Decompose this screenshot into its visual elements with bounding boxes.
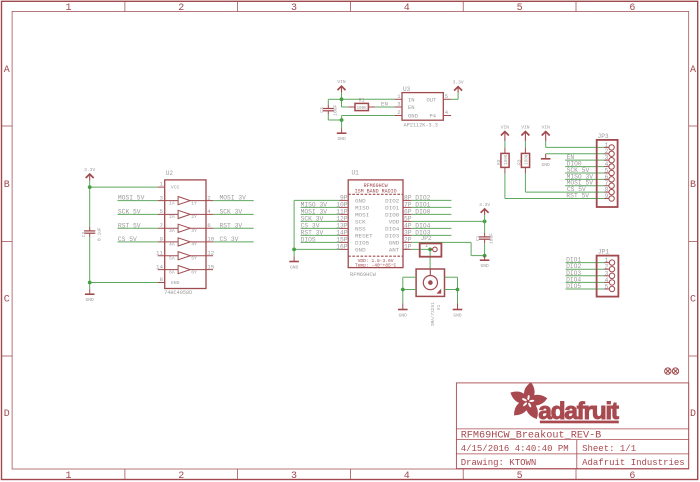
title block — [456, 383, 688, 469]
net label DIO0 (header) — [567, 161, 582, 168]
supply VIN (regulator input) — [337, 79, 346, 99]
wire VIN net — [328, 99, 394, 107]
net label MISO_3V (radio) — [301, 201, 328, 208]
wire MOSI_3V net — [213, 200, 254, 202]
capacitor C2 0.1uF — [81, 227, 102, 241]
svg-text:U1: U1 — [352, 170, 360, 177]
svg-text:4Y: 4Y — [191, 242, 197, 248]
svg-text:RESET: RESET — [355, 233, 373, 240]
svg-text:Temp: -40°+85°C: Temp: -40°+85°C — [355, 263, 397, 269]
node shield junction right — [456, 288, 460, 292]
svg-text:CS_5V: CS_5V — [118, 236, 137, 243]
svg-text:RFM69HCW_Breakout_REV-B: RFM69HCW_Breakout_REV-B — [461, 430, 602, 442]
svg-text:CS_3V: CS_3V — [301, 222, 320, 229]
svg-text:14P: 14P — [336, 230, 348, 237]
svg-text:3A: 3A — [169, 228, 175, 234]
svg-text:DIO1: DIO1 — [385, 205, 400, 212]
svg-text:D: D — [4, 409, 10, 420]
svg-text:GND: GND — [355, 198, 366, 205]
svg-text:74HC4050D: 74HC4050D — [164, 290, 192, 296]
wire RST_3V net — [213, 227, 254, 229]
wire DIO4 net (DIO header) — [566, 281, 605, 283]
svg-text:DIO0: DIO0 — [415, 208, 430, 215]
fiducial marks — [665, 368, 679, 374]
net label DIO4 (DIO header) — [566, 276, 581, 283]
svg-text:MOSI_5V: MOSI_5V — [567, 180, 594, 187]
svg-text:EN: EN — [381, 101, 388, 108]
svg-text:5: 5 — [517, 471, 523, 482]
svg-text:RFM69HCW: RFM69HCW — [350, 272, 377, 278]
svg-text:JP1: JP1 — [598, 249, 609, 256]
net label MISO_3V (header) — [567, 173, 594, 180]
wire CS_3V net — [213, 241, 254, 243]
net label DIO3 (radio right) — [415, 229, 430, 236]
svg-text:2Y: 2Y — [191, 214, 197, 220]
wire RST_5V net — [118, 227, 158, 229]
node shield junction left — [401, 288, 405, 292]
svg-text:6: 6 — [629, 471, 635, 482]
svg-text:A: A — [690, 65, 696, 76]
net label CS_5V — [118, 236, 137, 243]
wire DIO2 net (radio right) — [411, 199, 451, 201]
svg-text:2: 2 — [207, 194, 211, 201]
svg-text:4: 4 — [404, 3, 410, 14]
svg-text:2: 2 — [397, 109, 400, 116]
svg-text:IN: IN — [408, 96, 415, 103]
wire SMA shield right — [445, 277, 458, 303]
svg-text:9: 9 — [160, 236, 164, 243]
svg-text:DIO3: DIO3 — [385, 233, 400, 240]
wire DIO1 net (radio right) — [411, 206, 451, 208]
svg-text:16P: 16P — [336, 244, 348, 251]
svg-text:EN: EN — [408, 104, 415, 111]
svg-text:10uF: 10uF — [488, 233, 494, 244]
svg-text:3: 3 — [397, 101, 400, 108]
node GND junction (C1) — [483, 254, 487, 258]
svg-text:3.3V: 3.3V — [84, 167, 95, 173]
svg-text:C: C — [690, 295, 696, 306]
svg-text:Adafruit Industries: Adafruit Industries — [582, 458, 685, 468]
svg-text:DIO5: DIO5 — [566, 283, 581, 290]
wire 3.3V net (regulator output) — [451, 93, 458, 100]
svg-text:GND: GND — [355, 247, 366, 254]
net label CS_3V — [220, 236, 239, 243]
svg-text:15P: 15P — [336, 237, 348, 244]
svg-text:3: 3 — [291, 471, 297, 482]
svg-text:RST_5V: RST_5V — [566, 193, 589, 200]
svg-text:GND: GND — [86, 297, 95, 303]
ground (SMA left) — [398, 304, 408, 319]
net label MOSI_5V (header) — [567, 180, 594, 187]
svg-text:6Y: 6Y — [191, 269, 197, 275]
net label EN (header) — [567, 154, 575, 161]
SMA connector X1 — [416, 269, 444, 326]
net label CS_3V (radio) — [301, 222, 320, 229]
wire DIO5 net (DIO header) — [566, 288, 605, 290]
net label MOSI_3V — [220, 195, 247, 202]
wire SMA shield left — [403, 277, 416, 303]
svg-text:VDD: VDD — [389, 219, 400, 226]
wire DIO3 net (radio right) — [411, 234, 451, 236]
net label RST_5V — [118, 222, 141, 229]
svg-text:DIO2: DIO2 — [415, 194, 430, 201]
svg-text:8: 8 — [160, 276, 164, 283]
net label DIO5 (DIO header) — [566, 283, 581, 290]
header JP3 — [597, 133, 618, 207]
svg-text:2P: 2P — [404, 237, 412, 244]
wire MOSI_5V net (header) — [565, 185, 604, 187]
header JP1 — [597, 249, 619, 297]
svg-text:4P: 4P — [404, 223, 412, 230]
net label CS_5V (header) — [567, 186, 586, 193]
svg-text:2A: 2A — [169, 214, 175, 220]
svg-text:3: 3 — [160, 194, 164, 201]
supply VIN (pullup R3) — [521, 125, 530, 148]
svg-text:11P: 11P — [336, 209, 348, 216]
svg-text:5P: 5P — [404, 216, 412, 223]
svg-text:OUT: OUT — [427, 96, 438, 103]
wire MISO_3V net (radio) — [301, 206, 340, 208]
net label MOSI_5V — [118, 195, 145, 202]
svg-text:12P: 12P — [336, 216, 348, 223]
svg-text:3: 3 — [291, 3, 297, 14]
capacitor C1 10uF — [475, 221, 494, 255]
wire DIO0 net (header) — [565, 166, 604, 168]
svg-text:DIO1: DIO1 — [415, 201, 430, 208]
svg-text:3.3V: 3.3V — [479, 202, 490, 208]
svg-text:15: 15 — [207, 263, 214, 270]
ground (regulator) — [337, 128, 347, 142]
net label RST_5V (header) — [566, 193, 589, 200]
svg-text:3.3V: 3.3V — [453, 80, 464, 86]
node ANT junction — [428, 248, 432, 252]
svg-text:Drawing: KTOWN: Drawing: KTOWN — [461, 458, 537, 468]
wire RST_3V net (radio) — [301, 234, 340, 236]
svg-text:1Y: 1Y — [191, 200, 197, 206]
svg-text:MOSI_3V: MOSI_3V — [220, 195, 247, 202]
svg-text:VIN: VIN — [337, 79, 346, 85]
svg-text:SCK_5V: SCK_5V — [118, 208, 141, 215]
svg-text:6: 6 — [629, 3, 635, 14]
net label RST_3V (radio) — [301, 229, 324, 236]
svg-text:2: 2 — [178, 3, 184, 14]
svg-text:14: 14 — [156, 263, 163, 270]
net label SCK_3V — [220, 208, 243, 215]
svg-text:CS_3V: CS_3V — [220, 236, 239, 243]
wire GND bus (radio left) — [294, 200, 339, 256]
wire GND net (radio right) — [411, 242, 484, 255]
svg-text:MOSI: MOSI — [355, 212, 369, 219]
header JP2 (antenna pad) — [420, 235, 442, 256]
svg-text:C3: C3 — [319, 107, 325, 113]
buffer IC U2 74HC4050D — [156, 170, 215, 296]
svg-text:7P: 7P — [404, 202, 412, 209]
svg-text:NSS: NSS — [355, 226, 366, 233]
wire CS_5V net — [118, 241, 158, 243]
svg-text:9: 9 — [605, 193, 609, 200]
svg-text:SCK_3V: SCK_3V — [220, 208, 243, 215]
svg-text:6: 6 — [207, 222, 211, 229]
svg-text:11: 11 — [156, 250, 163, 257]
svg-text:GND: GND — [290, 265, 299, 271]
svg-text:5: 5 — [605, 284, 609, 291]
wire CS_5V net — [525, 174, 604, 193]
svg-text:MISO: MISO — [355, 205, 370, 212]
svg-text:4: 4 — [404, 471, 410, 482]
svg-text:R1: R1 — [359, 98, 365, 104]
svg-text:VCC: VCC — [171, 184, 180, 190]
wire SCK_5V net (header) — [565, 172, 604, 174]
svg-text:MOSI_3V: MOSI_3V — [301, 208, 328, 215]
svg-text:5A: 5A — [169, 256, 175, 262]
svg-text:R2: R2 — [496, 159, 502, 165]
net label DIO2 (DIO header) — [566, 263, 581, 270]
voltage regulator U3 AP2112K-3.3 — [395, 86, 452, 129]
svg-text:8P: 8P — [404, 195, 412, 202]
wire DIO3 net (DIO header) — [566, 275, 605, 277]
net label EN — [381, 101, 388, 108]
svg-text:DIO4: DIO4 — [415, 222, 430, 229]
svg-text:4/15/2016 4:40:40 PM: 4/15/2016 4:40:40 PM — [461, 444, 569, 454]
wire MOSI_5V net — [118, 200, 158, 202]
svg-text:C2: C2 — [81, 231, 87, 237]
ground (SMA right) — [453, 304, 463, 319]
svg-text:RST_3V: RST_3V — [220, 222, 243, 229]
svg-text:A: A — [4, 65, 10, 76]
svg-text:5Y: 5Y — [191, 256, 197, 262]
svg-text:MISO_3V: MISO_3V — [301, 201, 328, 208]
net label MOSI_3V (radio) — [301, 208, 328, 215]
wire DIO4 net (radio right) — [411, 227, 451, 229]
node GND junction (radio left) — [292, 248, 296, 252]
wire GND rail (buffer) — [90, 237, 158, 289]
supply VIN (pullup R2) — [501, 125, 510, 148]
ground (C1) — [480, 256, 490, 270]
svg-text:X1: X1 — [436, 304, 442, 310]
net label SCK_5V — [118, 208, 141, 215]
svg-text:ISM BAND RADIO: ISM BAND RADIO — [355, 188, 397, 194]
svg-text:GND: GND — [171, 280, 180, 286]
supply 3.3V (buffer) — [84, 167, 95, 187]
svg-text:D: D — [690, 409, 696, 420]
wire RST_5V net — [505, 174, 604, 199]
supply 3.3V (radio VDD) — [479, 202, 490, 222]
net label RST_3V — [220, 222, 243, 229]
wire DIO1 net (DIO header) — [566, 262, 605, 264]
ground (radio left) — [289, 257, 299, 271]
wire 3.3V rail (buffer) — [90, 187, 158, 227]
wire GND net (header) — [546, 153, 604, 155]
resistor R1 100K — [348, 98, 375, 111]
supply VIN (header pin 1) — [542, 125, 551, 142]
svg-text:VIN: VIN — [501, 125, 510, 131]
svg-text:100K: 100K — [526, 154, 530, 165]
radio module U1 RFM69HCW — [336, 170, 412, 279]
svg-text:VIN: VIN — [521, 125, 530, 131]
svg-text:GND: GND — [399, 313, 408, 319]
wire EN net (header) — [565, 159, 604, 161]
svg-text:7: 7 — [160, 222, 164, 229]
svg-text:U3: U3 — [403, 86, 411, 93]
wire MOSI_3V net (radio) — [301, 213, 340, 215]
svg-text:GND: GND — [542, 162, 551, 168]
wire SCK_5V net — [118, 213, 158, 215]
wire GND net (regulator) — [328, 115, 394, 129]
svg-text:CS_5V: CS_5V — [567, 186, 586, 193]
svg-text:DIO5: DIO5 — [355, 240, 370, 247]
svg-text:Sheet: 1/1: Sheet: 1/1 — [582, 444, 636, 454]
svg-text:12: 12 — [207, 250, 214, 257]
wire MISO_3V net (header) — [565, 178, 604, 180]
svg-text:10uF: 10uF — [333, 105, 339, 116]
net label DIO1 (radio right) — [415, 201, 430, 208]
svg-text:C: C — [4, 295, 10, 306]
svg-text:SCK_3V: SCK_3V — [301, 215, 324, 222]
resistor R2 100K — [496, 148, 509, 174]
net label DIO2 (radio right) — [415, 194, 430, 201]
svg-text:DIO5: DIO5 — [301, 236, 316, 243]
svg-text:RST_5V: RST_5V — [118, 222, 141, 229]
svg-text:1: 1 — [65, 3, 71, 14]
wire VDD 3.3V net (radio) — [411, 220, 484, 222]
svg-text:10P: 10P — [336, 202, 348, 209]
svg-text:100K: 100K — [505, 154, 509, 165]
wire CS_3V net (radio) — [301, 227, 340, 229]
wire SCK_3V net (radio) — [301, 220, 340, 222]
wire EN net — [375, 106, 394, 108]
node 3.3V junction (buffer) — [88, 185, 92, 189]
svg-text:13P: 13P — [336, 223, 348, 230]
svg-text:R3: R3 — [517, 159, 523, 165]
logo adafruit — [510, 382, 618, 425]
svg-text:5: 5 — [160, 208, 164, 215]
svg-text:ANT: ANT — [389, 247, 400, 254]
svg-text:1P: 1P — [404, 244, 412, 251]
svg-text:1A: 1A — [169, 200, 175, 206]
svg-text:JP3: JP3 — [598, 133, 609, 140]
svg-text:4A: 4A — [169, 242, 175, 248]
svg-text:DIO4: DIO4 — [385, 226, 400, 233]
node VDD junction — [483, 220, 487, 224]
svg-text:B: B — [4, 180, 10, 191]
svg-text:2: 2 — [178, 471, 184, 482]
svg-text:DIO2: DIO2 — [385, 198, 400, 205]
svg-text:U2: U2 — [166, 170, 174, 177]
svg-text:6P: 6P — [404, 209, 412, 216]
svg-text:GND: GND — [480, 263, 489, 269]
svg-text:P4: P4 — [430, 112, 437, 119]
wire SCK_3V net — [213, 213, 254, 215]
svg-text:B: B — [690, 180, 696, 191]
wire DIO2 net (DIO header) — [566, 268, 605, 270]
svg-text:1: 1 — [65, 471, 71, 482]
wire VIN net (header) — [546, 141, 604, 147]
resistor R3 100K — [517, 148, 530, 174]
net label DIO0 (radio right) — [415, 208, 430, 215]
net label DIO1 (DIO header) — [566, 257, 581, 264]
svg-text:SMA/73251: SMA/73251 — [431, 302, 436, 326]
net label DIO3 (DIO header) — [566, 270, 581, 277]
supply 3.3V (regulator output) — [453, 80, 464, 93]
svg-text:JP2: JP2 — [421, 235, 432, 242]
svg-text:4: 4 — [207, 208, 211, 215]
svg-text:GND: GND — [453, 313, 462, 319]
node GND junction (buffer) — [88, 281, 92, 285]
svg-text:SCK: SCK — [355, 219, 366, 226]
svg-text:3P: 3P — [404, 230, 412, 237]
svg-text:9P: 9P — [340, 195, 348, 202]
svg-text:GND: GND — [337, 136, 346, 142]
svg-text:RST_3V: RST_3V — [301, 229, 324, 236]
svg-text:GND: GND — [389, 240, 400, 247]
svg-text:C1: C1 — [475, 235, 481, 241]
svg-text:5: 5 — [517, 3, 523, 14]
ground (header) — [541, 154, 551, 168]
net label SCK_5V (header) — [567, 167, 590, 174]
svg-text:AP2112K-3.3: AP2112K-3.3 — [404, 123, 438, 129]
wire DIO0 net (radio right) — [411, 213, 451, 215]
wire DIO5 net (radio) — [301, 241, 340, 243]
ground (buffer) — [85, 289, 95, 303]
svg-text:5: 5 — [445, 93, 448, 100]
svg-text:DIO0: DIO0 — [385, 212, 400, 219]
node GND junction (regulator) — [340, 118, 344, 122]
node VIN junction — [340, 97, 344, 101]
svg-text:100K: 100K — [357, 107, 368, 111]
net label DIO5 (radio) — [301, 236, 316, 243]
wire ANT net — [411, 249, 430, 269]
svg-text:MOSI_5V: MOSI_5V — [118, 195, 145, 202]
capacitor C3 10uF — [319, 105, 339, 116]
svg-text:VIN: VIN — [542, 125, 551, 131]
svg-text:GND: GND — [408, 112, 419, 119]
svg-text:6A: 6A — [169, 269, 175, 275]
svg-text:0.1uF: 0.1uF — [96, 227, 102, 241]
svg-text:3Y: 3Y — [191, 228, 197, 234]
net label SCK_3V (radio) — [301, 215, 324, 222]
net label DIO4 (radio right) — [415, 222, 430, 229]
svg-text:1: 1 — [160, 181, 164, 188]
